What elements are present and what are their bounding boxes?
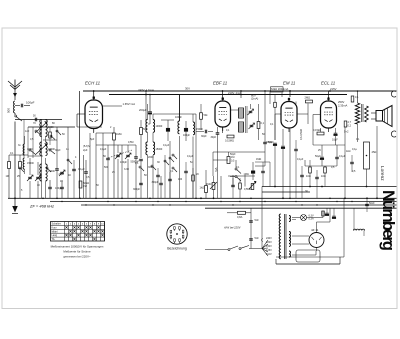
capacitor C41 bbox=[231, 184, 235, 186]
switch S12 bbox=[164, 160, 166, 162]
svg-text:1n: 1n bbox=[66, 148, 69, 151]
svg-text:0,5: 0,5 bbox=[231, 160, 235, 163]
wire dn x28 bbox=[27, 127, 29, 158]
resistor R2 50k 1W bbox=[79, 181, 82, 188]
switch S3 band b bbox=[49, 149, 51, 151]
wire ECH cath bbox=[93, 129, 95, 134]
tube AZ11 rectifier bbox=[309, 233, 324, 248]
connector ant C bottom bbox=[391, 131, 396, 137]
resistor R4 bbox=[200, 113, 203, 120]
svg-text:gemessen bei 220V~: gemessen bei 220V~ bbox=[63, 255, 91, 259]
switch S11 mains bbox=[205, 249, 228, 251]
switch S17 bbox=[151, 165, 153, 167]
trimmer C3 padder bbox=[36, 176, 40, 178]
svg-text:3n: 3n bbox=[18, 144, 21, 147]
capacitor C38 bbox=[156, 174, 160, 176]
switch S10 det c bbox=[249, 182, 256, 190]
wire misc hor bbox=[77, 126, 102, 128]
svg-text:40: 40 bbox=[68, 174, 71, 177]
svg-text:0,1: 0,1 bbox=[170, 170, 174, 173]
capacitor C10 3.3nF bbox=[134, 156, 138, 158]
wire band col a bbox=[41, 120, 43, 199]
svg-text:62kΩ 200/1mA: 62kΩ 200/1mA bbox=[271, 87, 288, 91]
switch S18 bbox=[169, 157, 171, 159]
capacitor C44 bbox=[315, 176, 319, 178]
wire right bottom frame bbox=[343, 198, 345, 257]
coil L11 IF1 sec b bbox=[153, 142, 155, 155]
switch S6 bbox=[172, 154, 174, 156]
wire EM left bbox=[275, 113, 282, 115]
wire rect heater mid bbox=[316, 248, 318, 252]
svg-text:7µA: 7µA bbox=[215, 167, 218, 172]
arrow tune 2 bbox=[35, 144, 47, 155]
svg-text:30: 30 bbox=[157, 161, 160, 164]
svg-text:30V: 30V bbox=[185, 87, 190, 91]
svg-text:ZF = 468 kHz: ZF = 468 kHz bbox=[29, 203, 54, 208]
transformer T2 core bbox=[284, 214, 286, 259]
capacitor C39 bbox=[168, 178, 172, 180]
resistor R21 em left bbox=[274, 102, 277, 107]
svg-text:100: 100 bbox=[178, 178, 183, 181]
wire EM cath dn bbox=[289, 129, 291, 199]
svg-text:20: 20 bbox=[196, 173, 199, 176]
svg-text:50: 50 bbox=[144, 174, 147, 177]
wire bus 3 bbox=[81, 204, 397, 206]
wire EM62k bbox=[281, 93, 283, 98]
wire socket loop bbox=[296, 250, 320, 262]
wire EM plate bbox=[289, 91, 291, 97]
resistor R12 10a bbox=[309, 167, 312, 173]
transformer T2 sec heater1 bbox=[289, 216, 291, 222]
coil L17 x24b bbox=[23, 158, 24, 169]
svg-text:Meßinstrument 1000Ω/V für Span: Meßinstrument 1000Ω/V für Spannungen bbox=[51, 245, 104, 249]
svg-text:4: 4 bbox=[75, 156, 77, 159]
capacitor C34 300pF2 bbox=[139, 182, 143, 184]
socket pins bbox=[182, 235, 184, 238]
wire col x196 bbox=[195, 114, 197, 198]
wire hor y140 bbox=[43, 139, 57, 141]
switch S13 bbox=[56, 130, 58, 132]
wire mains v1 bbox=[250, 208, 252, 248]
wire heater run bbox=[292, 254, 316, 256]
wire +250V top rail bbox=[83, 90, 397, 92]
antenna bbox=[8, 81, 22, 87]
lamp LP1 dial bbox=[301, 215, 307, 221]
capacitor C23 bbox=[294, 148, 298, 150]
resistor R17 bbox=[192, 175, 195, 181]
svg-text:30pF: 30pF bbox=[55, 149, 61, 152]
wire x313 dn bbox=[312, 125, 314, 145]
resistor R1 1M bbox=[8, 162, 11, 169]
resistor R5 1k bbox=[205, 186, 208, 193]
svg-text:4Z 11: 4Z 11 bbox=[311, 228, 319, 232]
arrow tune 1 bbox=[35, 122, 47, 133]
capacitor C30 5nF b bbox=[249, 238, 253, 240]
wire rail drop left bbox=[79, 91, 81, 198]
resistor R8 2M bbox=[306, 100, 313, 103]
svg-text:50: 50 bbox=[62, 133, 65, 136]
wire ECL plate bbox=[328, 91, 330, 98]
svg-text:Mittel: Mittel bbox=[52, 230, 58, 233]
capacitor C25 50uF bbox=[320, 156, 324, 158]
svg-text:Bezeichnung: Bezeichnung bbox=[167, 247, 187, 251]
svg-text:0,1µF: 0,1µF bbox=[297, 158, 304, 161]
transformer T1 core bbox=[361, 104, 363, 122]
svg-text:100pF: 100pF bbox=[183, 134, 190, 137]
wire input hor 1 bbox=[15, 119, 62, 121]
resistor R10 0.15k bbox=[317, 132, 324, 135]
wire rail drop x179 bbox=[179, 95, 181, 122]
transformer T2 sec heater2 bbox=[289, 251, 291, 257]
capacitor C28 right bbox=[365, 203, 369, 205]
wire col x90 bbox=[89, 133, 91, 198]
wire band col b bbox=[56, 127, 58, 158]
coil L1 antenna choke bbox=[14, 101, 16, 113]
svg-text:0,1: 0,1 bbox=[236, 166, 240, 169]
svg-text:0,1: 0,1 bbox=[135, 162, 139, 165]
capacitor C27 bbox=[350, 161, 354, 163]
fuse F1 0.8A bbox=[238, 211, 246, 214]
capacitor C20 bbox=[251, 171, 255, 174]
box 62k label frame bbox=[271, 87, 284, 92]
svg-text:TA: TA bbox=[52, 238, 55, 241]
wire x345 dn bbox=[344, 127, 346, 198]
svg-text:Lorenz: Lorenz bbox=[379, 166, 385, 181]
coil L8 IF1 pri a bbox=[146, 120, 148, 133]
capacitor C40 bbox=[184, 170, 188, 172]
capacitor C31 filt a bbox=[325, 212, 329, 214]
svg-text:2: 2 bbox=[110, 126, 112, 129]
node rail dots bbox=[93, 90, 95, 92]
coil L18 osc sec bbox=[193, 122, 195, 135]
ground left bbox=[14, 197, 16, 199]
resistor R16 box bbox=[322, 211, 325, 216]
svg-text:5nF: 5nF bbox=[255, 219, 260, 222]
svg-text:500: 500 bbox=[104, 166, 109, 169]
resistor R15 bbox=[49, 132, 52, 138]
switch S5 osc bbox=[139, 166, 141, 168]
svg-text:50µF: 50µF bbox=[268, 141, 274, 144]
coil L3 bf2 pri bbox=[40, 142, 42, 156]
coil L15 right bbox=[353, 229, 364, 230]
tube ECL11 V4 bbox=[321, 101, 337, 128]
resistor R6 0.15M bbox=[227, 135, 234, 138]
wire ECL grid bbox=[313, 114, 321, 116]
svg-text:Kurz: Kurz bbox=[52, 226, 58, 229]
capacitor C46 trim2 bbox=[184, 128, 188, 131]
svg-text:1MΩ: 1MΩ bbox=[206, 183, 211, 186]
wire hor y156 bbox=[28, 155, 43, 157]
svg-text:0,8A: 0,8A bbox=[237, 215, 243, 219]
svg-text:ECH 11: ECH 11 bbox=[85, 81, 101, 86]
connector ant C top bbox=[391, 91, 396, 97]
coil L12 osc coil bbox=[178, 121, 180, 134]
wire det hor bbox=[213, 151, 265, 153]
capacitor C13 300pF bbox=[159, 182, 163, 184]
svg-text:10000: 10000 bbox=[156, 125, 163, 128]
resistor R14 bbox=[140, 128, 143, 135]
socket view circle bbox=[167, 224, 187, 244]
capacitor C1 100pF bbox=[20, 104, 22, 108]
wire misc drops bbox=[102, 133, 104, 198]
svg-text:Lang: Lang bbox=[52, 234, 58, 237]
svg-text:0,1µF: 0,1µF bbox=[100, 148, 107, 151]
svg-text:3-30: 3-30 bbox=[124, 168, 130, 171]
svg-text:10µF: 10µF bbox=[332, 139, 338, 142]
svg-text:0,1: 0,1 bbox=[270, 123, 274, 126]
switch S1 antenna bbox=[14, 113, 16, 115]
capacitor C37 bbox=[34, 118, 36, 122]
coil L16 x24a bbox=[23, 144, 24, 155]
wire EBF cath bbox=[222, 127, 224, 133]
capacitor C16 bbox=[216, 132, 220, 134]
capacitor C15 bbox=[204, 130, 206, 134]
capacitor C24 10uF bbox=[334, 132, 338, 134]
table X marks bbox=[65, 226, 67, 228]
wire bus 4 bbox=[205, 207, 397, 209]
svg-text:0,2: 0,2 bbox=[348, 125, 352, 128]
svg-text:1MΩ: 1MΩ bbox=[256, 158, 261, 161]
capacitor C21 50uF bbox=[273, 142, 277, 144]
svg-text:0,1µF: 0,1µF bbox=[163, 144, 170, 147]
capacitor C19 50pF bbox=[263, 141, 267, 143]
svg-text:EM 11: EM 11 bbox=[283, 81, 296, 86]
svg-text:2MΩ: 2MΩ bbox=[305, 96, 311, 100]
switch S9 det b bbox=[235, 176, 237, 178]
capacitor C11 200uF bbox=[148, 111, 152, 113]
coil L13 IF2 pri bbox=[239, 108, 244, 118]
node rail junction 1 bbox=[145, 90, 147, 92]
svg-text:0,1µF: 0,1µF bbox=[78, 167, 85, 171]
transformer T2 sec HT bbox=[289, 232, 291, 247]
svg-text:2000: 2000 bbox=[148, 156, 154, 159]
node bus dots2 bbox=[61, 201, 62, 202]
wire dn x24 bbox=[23, 120, 25, 159]
svg-text:80: 80 bbox=[52, 122, 55, 125]
resistor R9 bbox=[351, 96, 354, 102]
wire x24 dn bbox=[24, 136, 26, 144]
svg-text:Nürnberg: Nürnberg bbox=[379, 190, 397, 251]
svg-text:1MΩ: 1MΩ bbox=[116, 132, 122, 136]
svg-text:50: 50 bbox=[33, 115, 36, 118]
potentiometer P1 1M bbox=[212, 183, 215, 190]
svg-text:15000: 15000 bbox=[196, 128, 203, 131]
svg-text:15000: 15000 bbox=[156, 148, 163, 151]
trimmer C18 IF2b bbox=[250, 124, 254, 126]
svg-text:150V: 150V bbox=[266, 245, 272, 248]
transformer T2 primary bbox=[279, 214, 281, 259]
speaker LS1 bbox=[376, 111, 383, 122]
wire col x96 bbox=[95, 133, 97, 198]
svg-text:1.65V≈mA: 1.65V≈mA bbox=[123, 102, 136, 106]
svg-text:30pF: 30pF bbox=[211, 136, 217, 139]
wire x165 dn bbox=[164, 155, 166, 198]
svg-text:ECL 11: ECL 11 bbox=[321, 81, 336, 86]
wire EBF plate bbox=[222, 91, 224, 97]
coil L9 IF1 pri b bbox=[146, 142, 148, 155]
svg-text:(5-6)V: (5-6)V bbox=[83, 144, 90, 148]
svg-text:5+2: 5+2 bbox=[344, 130, 349, 134]
wire right col bbox=[376, 126, 378, 198]
wire col x146 bbox=[145, 91, 147, 104]
svg-text:8µF: 8µF bbox=[90, 138, 95, 141]
svg-text:1n: 1n bbox=[60, 180, 63, 183]
tube EM11 V3 bbox=[281, 102, 297, 129]
node rail junction 2 bbox=[264, 90, 266, 92]
svg-text:70: 70 bbox=[33, 122, 36, 125]
wire hor 114 bbox=[153, 113, 196, 115]
svg-text:50µF: 50µF bbox=[315, 155, 321, 158]
node bus dots3 bbox=[85, 204, 86, 205]
svg-text:Meßwerte für Ströme: Meßwerte für Ströme bbox=[63, 250, 91, 254]
trimmer C2 padder bbox=[28, 176, 32, 178]
svg-text:1MΩ: 1MΩ bbox=[244, 173, 249, 176]
svg-text:0,1: 0,1 bbox=[261, 122, 265, 125]
svg-text:0,1: 0,1 bbox=[355, 96, 359, 99]
coil L2 bf1 pri bbox=[40, 120, 42, 137]
svg-text:100pF: 100pF bbox=[120, 161, 127, 164]
node bus junctions bbox=[42, 198, 44, 200]
wire hor y162 bbox=[255, 161, 270, 163]
capacitor C47 bbox=[55, 168, 59, 170]
switch S8 det a bbox=[235, 168, 237, 170]
svg-text:0,1µ: 0,1µ bbox=[352, 148, 357, 151]
capacitor C29 5nF a bbox=[249, 220, 253, 222]
fieldcoil FC1 bbox=[364, 142, 370, 169]
coil L4 bf3 pri bbox=[40, 164, 42, 181]
wire bus 2 bbox=[50, 201, 397, 203]
capacitor C4 bbox=[48, 186, 52, 188]
capacitor C6 0.1uF bbox=[84, 171, 88, 173]
wire ECH grid left bbox=[77, 113, 85, 115]
wire dn x33 bbox=[32, 127, 34, 158]
wire bottom hor bbox=[276, 263, 340, 265]
wire ECL hor 145 bbox=[313, 144, 345, 146]
svg-text:300pF: 300pF bbox=[133, 188, 141, 191]
capacitor C43 bbox=[300, 174, 304, 176]
capacitor C32 filt b bbox=[332, 215, 336, 217]
svg-text:10: 10 bbox=[37, 184, 40, 187]
svg-text:10000: 10000 bbox=[48, 148, 55, 151]
svg-text:EBF 11: EBF 11 bbox=[213, 81, 228, 86]
table grid bbox=[51, 224, 105, 226]
capacitor C7 bbox=[106, 157, 110, 159]
svg-text:500: 500 bbox=[7, 108, 11, 113]
svg-text:0,1: 0,1 bbox=[10, 152, 14, 155]
wire col x265 bbox=[264, 91, 266, 140]
svg-text:0,15kΩ: 0,15kΩ bbox=[313, 129, 321, 132]
tube EBF11 V2 bbox=[215, 101, 231, 127]
svg-text:0,1: 0,1 bbox=[226, 129, 230, 132]
capacitor C26 0.1uF bbox=[335, 156, 339, 158]
wire bus right seg bbox=[262, 191, 310, 193]
wire gang link dashed bbox=[108, 150, 132, 158]
node rail junction 3 bbox=[329, 90, 331, 92]
capacitor C45 trim1 bbox=[166, 128, 170, 131]
coil L3b bf2 sec bbox=[46, 142, 48, 156]
wire screen rail bbox=[109, 94, 347, 96]
svg-text:50: 50 bbox=[103, 155, 106, 158]
svg-text:50: 50 bbox=[96, 184, 99, 187]
svg-text:240V: 240V bbox=[266, 237, 272, 240]
coil L10 IF1 sec a bbox=[153, 120, 155, 133]
wire dn x270b bbox=[269, 162, 271, 187]
capacitor C35 bbox=[72, 168, 76, 170]
resistor R22 det bbox=[227, 157, 230, 164]
svg-text:5nF: 5nF bbox=[255, 237, 260, 240]
wire T1 dn bbox=[357, 124, 359, 142]
svg-text:1nF: 1nF bbox=[25, 130, 30, 133]
svg-text:1W: 1W bbox=[83, 184, 87, 188]
svg-text:0,15MΩ: 0,15MΩ bbox=[225, 140, 234, 143]
transformer T1 primary bbox=[355, 103, 359, 124]
coil L4b bf3 sec bbox=[46, 164, 48, 181]
svg-text:30: 30 bbox=[305, 190, 308, 193]
svg-text:25: 25 bbox=[112, 171, 115, 174]
switch S16 bbox=[46, 167, 48, 169]
resistor R11 4.7 bbox=[344, 121, 347, 127]
wire right col2 bbox=[353, 208, 355, 225]
svg-text:2µF: 2µF bbox=[83, 148, 88, 152]
transformer T1 secondary bbox=[365, 106, 369, 122]
svg-text:100pF: 100pF bbox=[26, 100, 35, 104]
svg-text:50nF: 50nF bbox=[369, 202, 375, 205]
switch S14 bbox=[67, 159, 69, 161]
svg-text:215V: 215V bbox=[330, 87, 337, 91]
svg-text:0,5: 0,5 bbox=[30, 138, 34, 141]
svg-text:0,3-0,5MΩ: 0,3-0,5MΩ bbox=[300, 129, 303, 140]
svg-text:A/W bei 220V: A/W bei 220V bbox=[223, 226, 241, 230]
resistor R3 1M bbox=[113, 133, 116, 140]
trimmer C17 IF2a bbox=[249, 110, 253, 112]
wire EM right bbox=[297, 113, 308, 115]
diag taps arrows bbox=[262, 240, 268, 249]
coil L14 IF2 sec bbox=[239, 122, 244, 132]
resistor R19 bbox=[19, 162, 22, 169]
svg-text:50k: 50k bbox=[204, 114, 209, 117]
wire IF1 links bbox=[147, 104, 149, 120]
svg-text:Schalter: Schalter bbox=[52, 223, 61, 226]
svg-text:15000: 15000 bbox=[27, 162, 34, 165]
resistor R7 0.1M bbox=[257, 122, 260, 129]
wire AVC bus bbox=[262, 186, 397, 188]
svg-text:45Ω: 45Ω bbox=[372, 150, 377, 154]
resistor R13 10b bbox=[324, 167, 327, 173]
wire ECL hor 166 bbox=[305, 165, 337, 167]
svg-text:1kΩ: 1kΩ bbox=[346, 150, 351, 153]
capacitor C33 bbox=[139, 158, 143, 160]
wire chassis bus main bbox=[8, 197, 397, 199]
wire input hor 2 bbox=[28, 126, 75, 128]
switch S2 band a bbox=[35, 130, 37, 132]
svg-text:0,5M: 0,5M bbox=[128, 141, 133, 144]
svg-text:(2mA): (2mA) bbox=[251, 97, 258, 101]
table frame bbox=[51, 222, 105, 242]
switch S4 band c bbox=[29, 149, 31, 151]
svg-text:100pF: 100pF bbox=[175, 116, 182, 119]
svg-text:250V: 250V bbox=[338, 100, 344, 104]
svg-text:0,5: 0,5 bbox=[86, 176, 90, 179]
wire rect up bbox=[316, 222, 318, 233]
wire lamp right bbox=[307, 217, 324, 219]
svg-text:30pF: 30pF bbox=[201, 135, 207, 138]
trimmer C8 gang1 bbox=[116, 154, 120, 156]
wire col x83 bbox=[83, 155, 85, 198]
svg-text:5: 5 bbox=[21, 189, 23, 192]
node d1 bbox=[289, 90, 291, 92]
svg-text:210V, 4mA: 210V, 4mA bbox=[228, 91, 241, 95]
wire IF2 core bbox=[245, 106, 247, 133]
